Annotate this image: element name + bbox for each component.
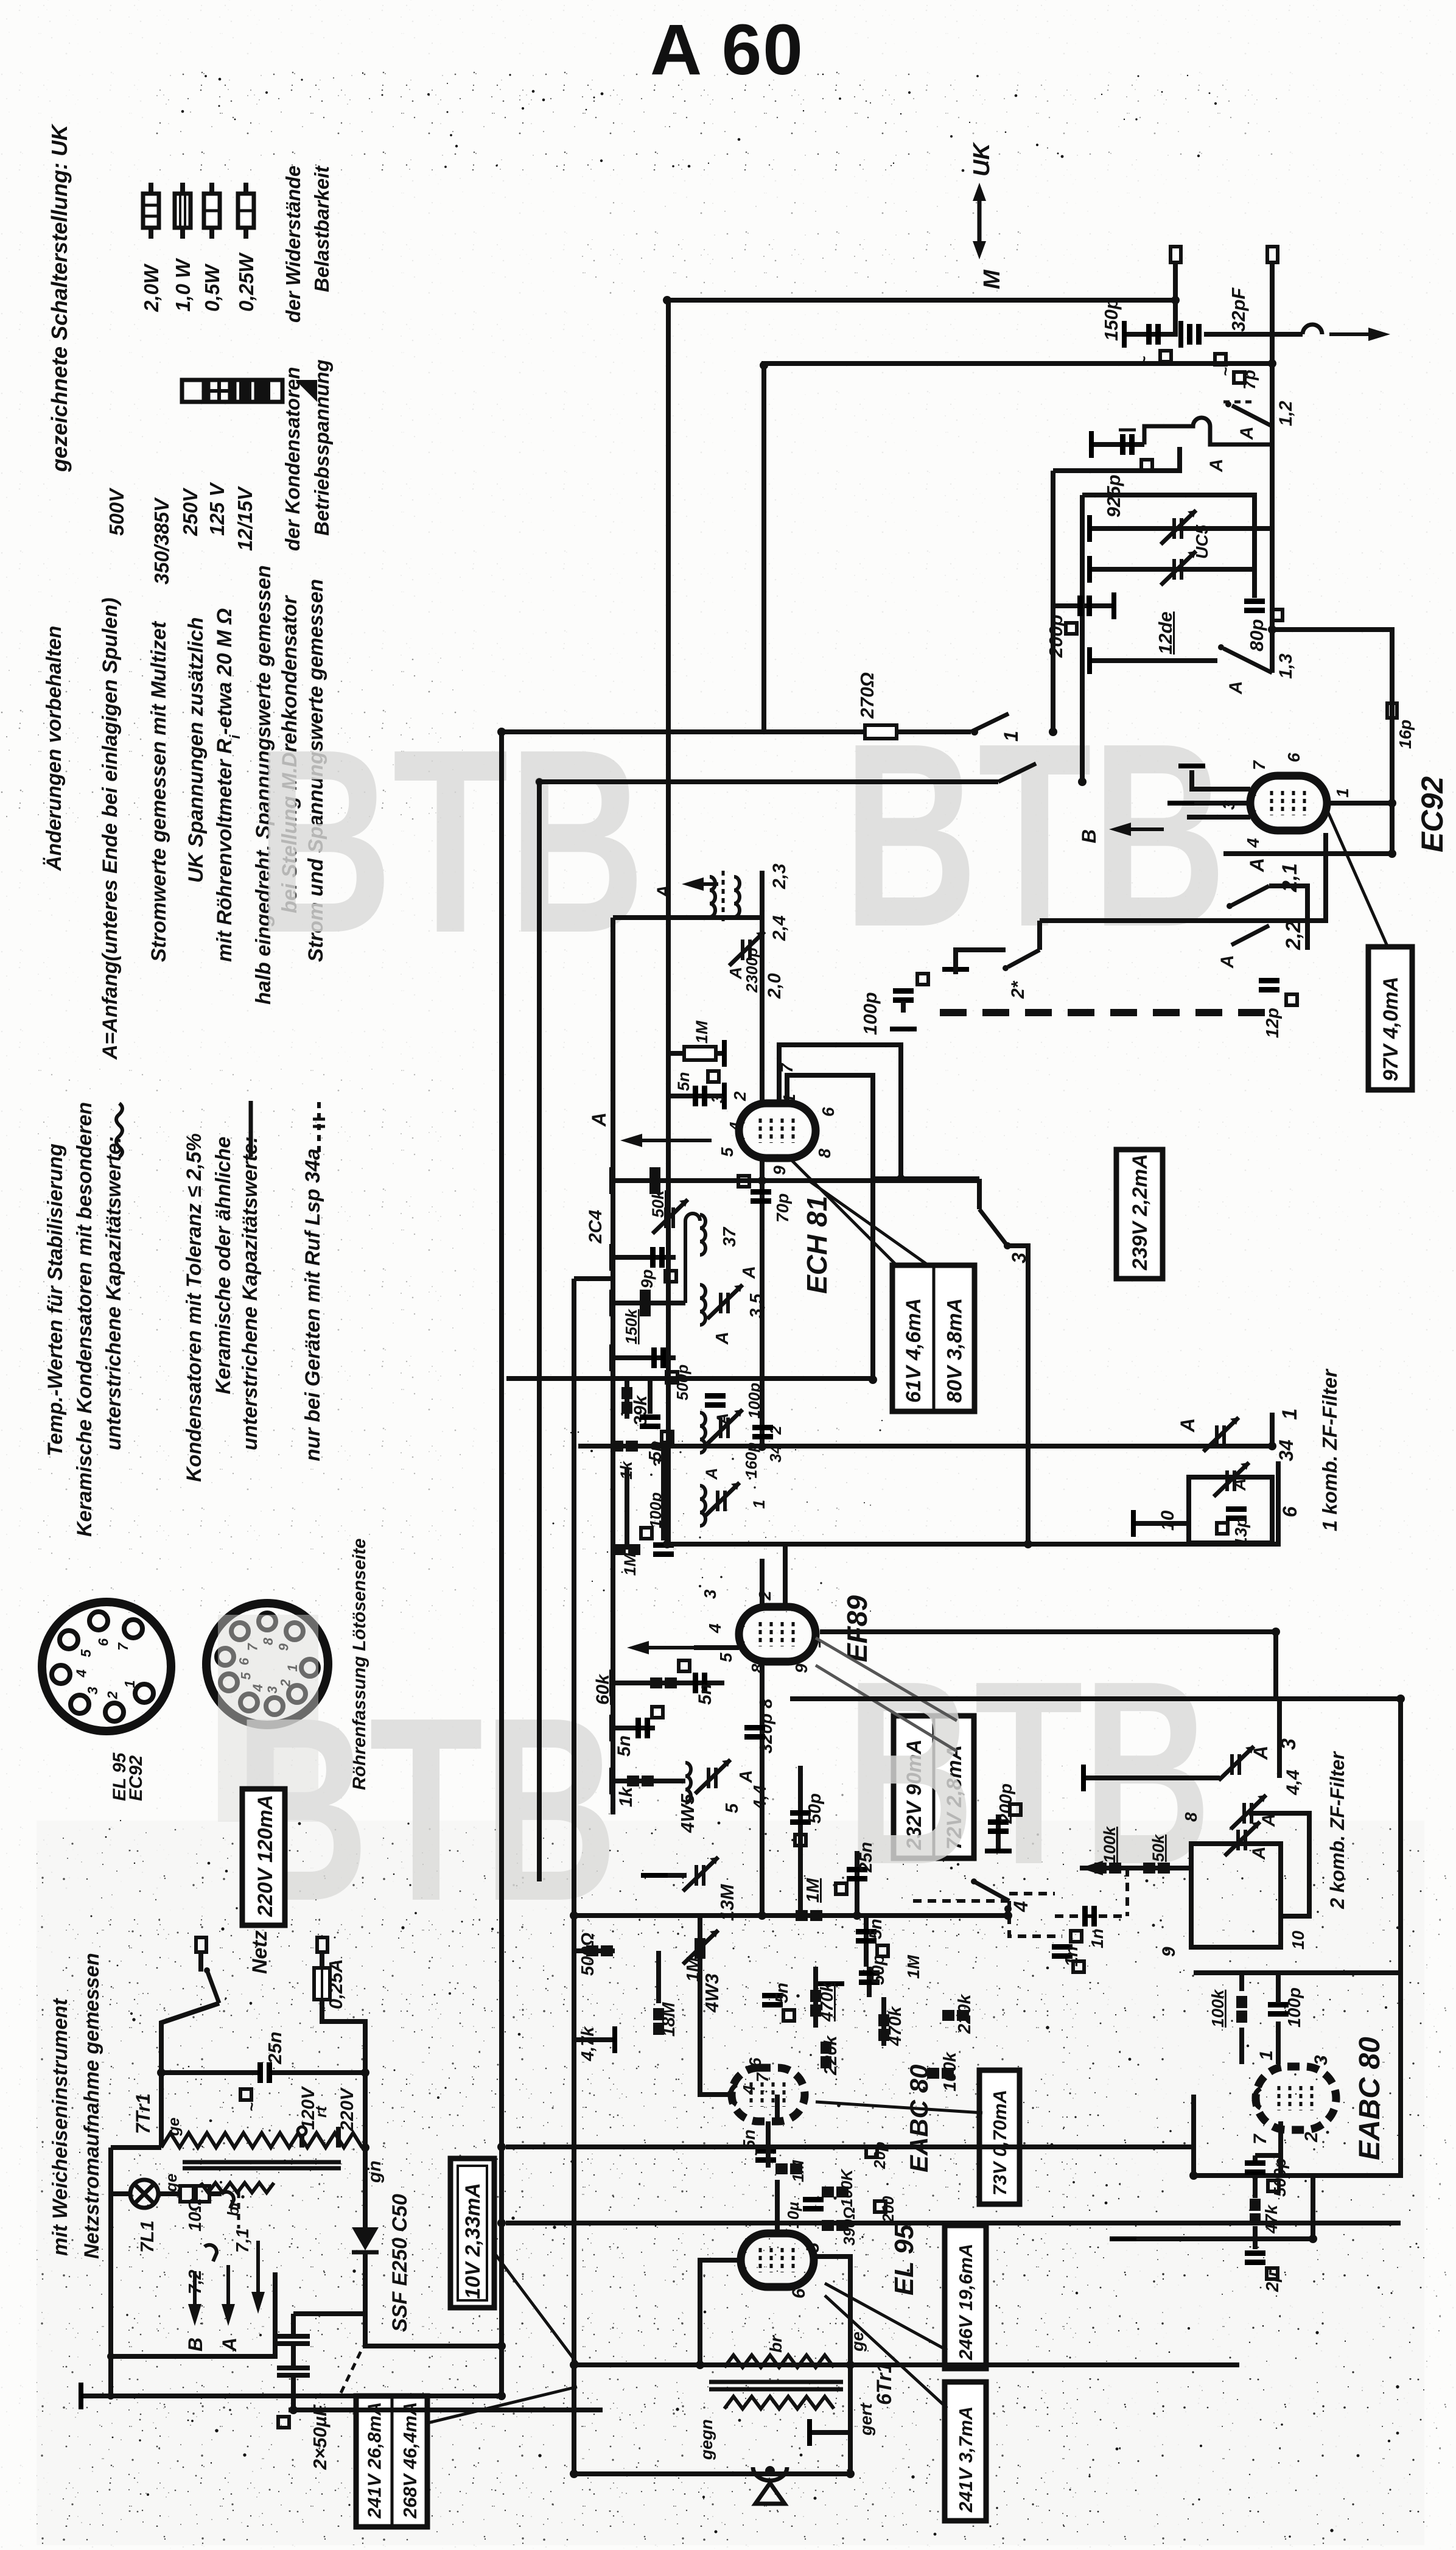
svg-text:A: A: [1177, 1418, 1199, 1433]
svg-text:2,3: 2,3: [769, 863, 789, 890]
svg-text:1: 1: [1000, 731, 1022, 742]
svg-text:9: 9: [770, 1165, 789, 1175]
svg-text:UC5: UC5: [1192, 525, 1211, 559]
svg-text:A: A: [654, 885, 674, 899]
svg-text:1M: 1M: [693, 1020, 711, 1044]
svg-text:SSF E250 C50: SSF E250 C50: [388, 2194, 411, 2332]
svg-text:100k: 100k: [1208, 1989, 1227, 2028]
svg-text:7p: 7p: [1240, 370, 1259, 390]
svg-text:7: 7: [753, 2072, 772, 2082]
svg-text:80p: 80p: [1246, 619, 1267, 652]
svg-text:4,4: 4,4: [751, 1785, 770, 1810]
svg-text:25n: 25n: [856, 1842, 876, 1873]
svg-text:5: 5: [723, 1803, 742, 1813]
svg-text:4,7k: 4,7k: [578, 2026, 598, 2062]
svg-text:32pF: 32pF: [1228, 287, 1249, 332]
svg-text:A: A: [1230, 1478, 1249, 1491]
svg-text:34: 34: [766, 1445, 785, 1463]
svg-text:2: 2: [730, 1091, 749, 1101]
svg-text:3: 3: [701, 1589, 719, 1599]
svg-text:4: 4: [726, 1122, 745, 1132]
svg-text:~: ~: [1216, 367, 1234, 376]
svg-text:1n: 1n: [1062, 1946, 1082, 1967]
svg-text:B: B: [1078, 829, 1100, 843]
svg-text:18M: 18M: [659, 2002, 679, 2037]
svg-text:gert: gert: [856, 2402, 875, 2436]
svg-text:A: A: [1237, 426, 1257, 440]
svg-text:5n: 5n: [695, 1684, 715, 1705]
svg-text:4,4: 4,4: [1283, 1769, 1303, 1796]
svg-text:9p: 9p: [638, 1269, 656, 1288]
svg-text:4W3: 4W3: [701, 1973, 723, 2013]
svg-text:8: 8: [815, 1148, 834, 1158]
svg-text:5n: 5n: [772, 1983, 792, 2003]
svg-text:3: 3: [708, 1094, 727, 1103]
svg-text:200p: 200p: [1045, 614, 1066, 658]
svg-text:6Tr1: 6Tr1: [873, 2362, 896, 2405]
svg-text:8: 8: [1181, 1812, 1200, 1822]
svg-text:2,4: 2,4: [769, 915, 789, 941]
svg-text:7Tr1: 7Tr1: [132, 2093, 154, 2134]
svg-text:1 komb. ZF-Filter: 1 komb. ZF-Filter: [1318, 1368, 1341, 1531]
svg-text:EC92: EC92: [1415, 776, 1449, 852]
svg-text:13p: 13p: [1231, 1517, 1250, 1547]
svg-text:A: A: [1217, 955, 1237, 969]
svg-text:BTB: BTB: [846, 1627, 1211, 1919]
svg-text:4: 4: [1010, 1901, 1032, 1912]
svg-text:1: 1: [1333, 788, 1352, 798]
svg-text:7: 7: [1250, 760, 1269, 770]
svg-text:500Ω: 500Ω: [578, 1933, 598, 1976]
svg-text:Netz: Netz: [248, 1930, 271, 1974]
svg-text:100p: 100p: [1285, 1987, 1304, 2028]
svg-text:A: A: [702, 1468, 721, 1481]
svg-text:A: A: [1246, 858, 1268, 873]
svg-text:2,2: 2,2: [1282, 921, 1305, 950]
svg-text:1,2: 1,2: [1276, 401, 1296, 426]
svg-text:1: 1: [750, 1500, 768, 1509]
svg-text:~: ~: [242, 2102, 261, 2112]
svg-text:10Ω: 10Ω: [186, 2198, 205, 2232]
svg-text:1M: 1M: [803, 1878, 823, 1903]
svg-text:4W5: 4W5: [677, 1794, 698, 1834]
svg-text:A: A: [1206, 458, 1227, 472]
svg-text:ge: ge: [162, 2174, 180, 2193]
svg-text:A: A: [713, 1413, 732, 1426]
svg-text:5n: 5n: [614, 1735, 634, 1757]
svg-text:2300p: 2300p: [743, 947, 761, 993]
svg-text:6: 6: [1284, 753, 1303, 762]
svg-text:EL 95: EL 95: [889, 2224, 919, 2295]
svg-text:A: A: [713, 1332, 732, 1345]
svg-text:220k: 220k: [821, 2035, 841, 2076]
svg-text:12p: 12p: [1263, 1008, 1283, 1038]
svg-text:47k: 47k: [1262, 2204, 1281, 2234]
svg-text:br: br: [766, 2334, 785, 2353]
svg-text:3,5: 3,5: [747, 1293, 766, 1318]
svg-text:1: 1: [1278, 1408, 1301, 1420]
svg-text:50p: 50p: [869, 1955, 888, 1985]
svg-text:50p: 50p: [805, 1793, 825, 1824]
svg-text:500p: 500p: [673, 1365, 691, 1400]
svg-text:2*: 2*: [1008, 980, 1028, 999]
svg-text:9: 9: [792, 1663, 811, 1673]
svg-text:5: 5: [716, 1653, 735, 1662]
svg-text:1M: 1M: [904, 1955, 923, 1979]
svg-text:200p: 200p: [996, 1783, 1016, 1824]
svg-text:6: 6: [789, 2288, 809, 2299]
svg-text:37: 37: [720, 1226, 740, 1247]
svg-text:500p: 500p: [1270, 2158, 1289, 2197]
svg-text:470k: 470k: [886, 2006, 905, 2046]
svg-text:2C4: 2C4: [586, 1210, 606, 1244]
svg-text:A: A: [588, 1112, 610, 1127]
svg-text:1k: 1k: [616, 1786, 636, 1807]
svg-text:150p: 150p: [1101, 298, 1122, 341]
svg-text:5: 5: [803, 2242, 823, 2253]
svg-text:160p: 160p: [742, 1442, 760, 1478]
svg-text:4: 4: [705, 1623, 724, 1634]
svg-text:9: 9: [1159, 1947, 1179, 1957]
svg-text:2×50µF: 2×50µF: [309, 2404, 331, 2470]
svg-text:10: 10: [1158, 1510, 1178, 1531]
svg-text:100p: 100p: [745, 1383, 763, 1419]
svg-text:A: A: [726, 967, 745, 980]
svg-text:A: A: [740, 1266, 759, 1279]
svg-text:gegn: gegn: [697, 2419, 716, 2460]
svg-text:4: 4: [1244, 838, 1262, 848]
svg-text:A: A: [1250, 1746, 1272, 1760]
svg-text:7,1: 7,1: [233, 2229, 253, 2253]
svg-text:70p: 70p: [773, 1193, 792, 1223]
svg-text:220V 120mA: 220V 120mA: [254, 1795, 277, 1917]
svg-text:1n: 1n: [1088, 1928, 1107, 1948]
svg-text:5n: 5n: [866, 1919, 886, 1939]
svg-text:UK: UK: [969, 142, 995, 177]
svg-text:6: 6: [1279, 1506, 1301, 1517]
svg-text:A: A: [1226, 681, 1246, 695]
svg-text:12de: 12de: [1155, 611, 1176, 655]
svg-text:7: 7: [1250, 2134, 1270, 2144]
svg-text:1: 1: [1256, 2050, 1276, 2060]
svg-text:0,25A: 0,25A: [325, 1959, 346, 2009]
svg-text:25n: 25n: [264, 2032, 285, 2065]
svg-text:EABC 80: EABC 80: [905, 2065, 933, 2172]
svg-text:mit Weicheiseninstrument: mit Weicheiseninstrument: [49, 1998, 72, 2256]
svg-text:100p: 100p: [859, 992, 881, 1035]
svg-text:16p: 16p: [1396, 720, 1415, 749]
svg-text:2 komb. ZF-Filter: 2 komb. ZF-Filter: [1326, 1751, 1348, 1909]
svg-text:B: B: [184, 2337, 206, 2352]
svg-text:ge: ge: [164, 2118, 183, 2137]
svg-text:BTB: BTB: [256, 695, 645, 988]
svg-text:5: 5: [718, 1147, 737, 1157]
svg-text:3: 3: [1219, 800, 1238, 810]
svg-text:60k: 60k: [593, 1674, 613, 1705]
svg-text:A: A: [219, 2337, 240, 2352]
svg-text:270Ω: 270Ω: [856, 672, 878, 719]
svg-text:M: M: [979, 269, 1005, 289]
svg-text:470k: 470k: [817, 1981, 837, 2022]
svg-text:13M: 13M: [716, 1884, 738, 1921]
svg-text:rt: rt: [312, 2106, 330, 2118]
svg-text:10: 10: [1289, 1930, 1307, 1950]
svg-text:2: 2: [755, 1590, 774, 1601]
svg-text:6: 6: [819, 1107, 838, 1117]
svg-text:7L1: 7L1: [136, 2221, 158, 2253]
svg-text:2.: 2.: [1301, 2127, 1321, 2143]
svg-text:1,3: 1,3: [1276, 653, 1296, 679]
svg-text:100k: 100k: [1101, 1825, 1119, 1863]
svg-text:EF89: EF89: [841, 1595, 873, 1662]
svg-text:4: 4: [740, 2085, 758, 2095]
svg-text:2µ: 2µ: [1263, 2272, 1283, 2292]
svg-text:1M: 1M: [621, 1553, 639, 1576]
svg-text:A: A: [737, 1770, 756, 1783]
svg-text:3: 3: [1311, 2055, 1331, 2065]
svg-text:ECH 81: ECH 81: [801, 1196, 833, 1294]
svg-text:EABC 80: EABC 80: [1354, 2037, 1386, 2160]
svg-text:Netzstromaufnahme gemessen: Netzstromaufnahme gemessen: [80, 1953, 103, 2259]
svg-text:34: 34: [1275, 1439, 1297, 1461]
svg-text:~: ~: [1135, 356, 1153, 365]
svg-text:50k: 50k: [1149, 1833, 1167, 1862]
svg-text:5n: 5n: [674, 1072, 693, 1091]
svg-text:2,0: 2,0: [765, 973, 785, 999]
svg-text:A: A: [1249, 1846, 1269, 1860]
svg-text:150k: 150k: [622, 1308, 640, 1344]
svg-text:220V: 220V: [337, 2087, 357, 2132]
